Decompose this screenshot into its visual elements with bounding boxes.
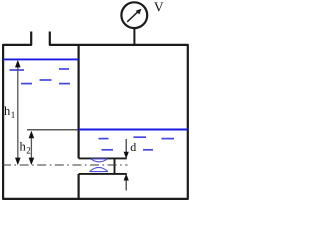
svg-text:V: V: [154, 0, 164, 14]
svg-text:2: 2: [26, 146, 31, 156]
svg-text:1: 1: [11, 110, 16, 120]
svg-text:d: d: [130, 140, 136, 154]
